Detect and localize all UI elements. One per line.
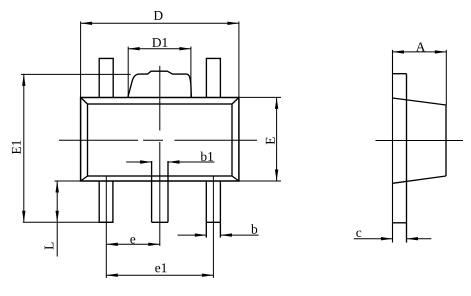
lead tip extension line (E1 / L bottom reference) (23, 221, 113, 223)
dimension L top extension line (55, 180, 81, 182)
e arrows (106, 243, 118, 246)
corner chamfer bottom-left (81, 176, 88, 181)
body top slant (393, 98, 447, 105)
side view centre line (376, 140, 464, 142)
package body outer outline (top view) (81, 98, 239, 182)
label b (251, 224, 257, 233)
top lead stub right (206, 58, 220, 97)
label b1 (200, 152, 213, 161)
label D (154, 11, 163, 20)
c arrows (381, 237, 393, 240)
horizontal centre line (main view) (59, 139, 138, 141)
dimension e line (106, 243, 160, 245)
bottom lead centre (edges extended up to b1 arrows) (151, 161, 153, 222)
label D1 (152, 38, 167, 47)
label L (45, 243, 54, 250)
tab/lead strip left edge (also A and c extension) (392, 50, 394, 243)
A arrows (393, 50, 405, 53)
strip top edge (393, 73, 407, 75)
heat-sink tab outline (128, 71, 192, 97)
dimension b1 lines (126, 161, 151, 163)
dimension E extension lines (239, 96, 281, 98)
dimension A right extension line (445, 50, 447, 105)
dimension c lines (354, 238, 393, 240)
corner chamfer top-left (81, 98, 88, 105)
strip bottom edge (393, 222, 407, 224)
dimension E line (276, 97, 278, 181)
corner chamfer top-right (232, 98, 239, 105)
package body inner (top surface) outline (88, 104, 233, 176)
dimension b lines (178, 234, 207, 236)
label E (266, 137, 275, 144)
dimension L line (56, 181, 58, 257)
dimension E1 top extension line (21, 73, 131, 75)
corner chamfer bottom-right (232, 176, 239, 181)
label A (416, 42, 425, 51)
b1 arrows (140, 160, 152, 163)
vertical centre line (main view) (159, 66, 161, 131)
dimension e extension lines (lead centres) (105, 176, 107, 278)
bottom lead right (edges extended down to b arrows) (205, 181, 207, 238)
dimension D1 extension lines (127, 47, 129, 98)
label e (130, 237, 135, 243)
E1 arrows (22, 74, 25, 86)
dimension D1 line (128, 48, 191, 50)
dimension e1 line (106, 274, 213, 276)
tab/lead strip right edge (406, 74, 408, 243)
label e1 (155, 263, 166, 272)
dimension E1 line (23, 74, 25, 222)
body bottom slant (393, 176, 447, 183)
label c (356, 231, 361, 237)
label E1 (12, 140, 21, 154)
dimension D line (81, 22, 239, 24)
b arrows (195, 233, 207, 236)
e1 arrows (106, 274, 118, 277)
top lead stub left (99, 58, 113, 97)
D1 arrows (128, 47, 140, 50)
dimension D extension lines (80, 22, 82, 98)
L arrows (56, 181, 59, 193)
bottom lead left (99, 181, 113, 222)
E arrows (275, 97, 278, 109)
body right edge (445, 105, 447, 176)
D arrows (81, 22, 93, 25)
dimension A line (393, 51, 447, 53)
